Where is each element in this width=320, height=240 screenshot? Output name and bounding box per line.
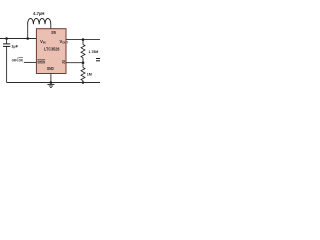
- label OFF/ON: [12, 58, 23, 63]
- svg-text:GND: GND: [47, 66, 54, 71]
- svg-text:SHDN: SHDN: [37, 59, 45, 64]
- wire GND lead: [50, 74, 52, 83]
- wire SW lead: [50, 24, 52, 29]
- svg-text:FB: FB: [62, 59, 65, 64]
- svg-text:SW: SW: [51, 30, 56, 35]
- svg-text:ON: ON: [19, 59, 23, 63]
- wire VIN horizontal: [0, 38, 36, 40]
- resistor R2 1M: [81, 63, 92, 83]
- resistor R1 1.78M: [81, 40, 98, 63]
- wire FB: [66, 62, 83, 64]
- wire VOUT horizontal: [66, 39, 100, 41]
- wire SHDN: [24, 61, 37, 63]
- wire left vertical to ground rail: [6, 46, 8, 82]
- node rail right: [82, 81, 85, 84]
- inductor L1 4.7uH: [28, 11, 51, 39]
- wire ground rail: [7, 82, 100, 84]
- capacitor C2 output (clipped at right edge): [96, 59, 100, 61]
- node FB junction: [82, 61, 85, 64]
- svg-text:1.78M: 1.78M: [89, 50, 99, 54]
- node GND rail: [50, 81, 53, 84]
- node input cap junction: [5, 37, 8, 40]
- node divider top: [82, 38, 85, 41]
- svg-text:4.7µH: 4.7µH: [33, 11, 44, 16]
- ground: [47, 83, 54, 88]
- background: [0, 0, 100, 100]
- op-amp U1 LTC3526 block: [36, 29, 68, 74]
- node inductor branch: [26, 37, 29, 40]
- capacitor C1 1uF: [3, 39, 19, 49]
- svg-text:1M: 1M: [87, 72, 92, 76]
- svg-text:VIN: VIN: [40, 39, 46, 45]
- svg-text:LTC3526: LTC3526: [44, 47, 60, 52]
- svg-text:1µF: 1µF: [11, 44, 19, 49]
- svg-text:OFF: OFF: [12, 59, 18, 63]
